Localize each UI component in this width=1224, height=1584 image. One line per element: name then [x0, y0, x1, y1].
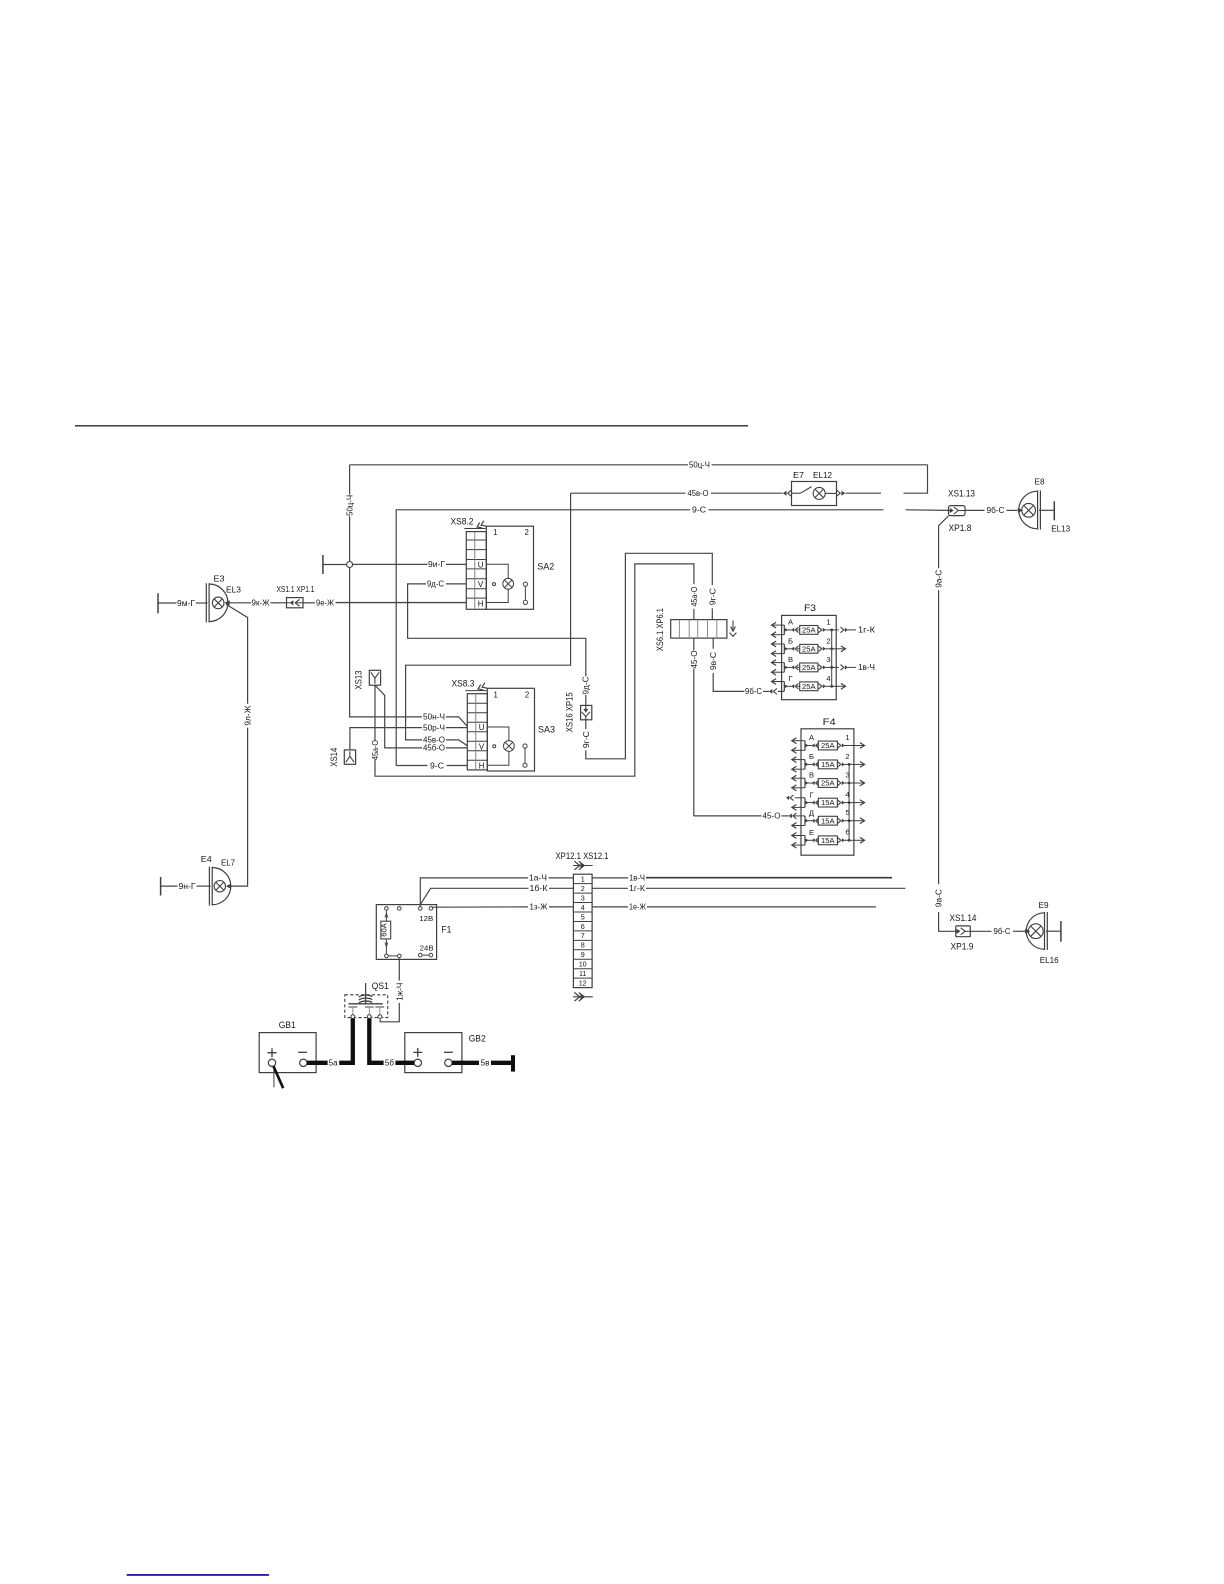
frame terminal bar: [511, 1055, 515, 1071]
wire 9е-Ж to SA2: [303, 602, 315, 604]
fuse block F3: [782, 615, 837, 699]
connector XS1.14 XP1.9: [956, 926, 971, 937]
svg-text:GB2: GB2: [469, 1034, 486, 1044]
XS8.2 header chevron: [464, 528, 485, 530]
svg-text:9к-Ж: 9к-Ж: [252, 598, 270, 608]
wire 9в-С below XS6.1 to F3: [712, 638, 714, 649]
fuse box F1: [376, 905, 436, 960]
svg-text:12В: 12В: [419, 914, 433, 923]
svg-text:25А: 25А: [802, 682, 816, 691]
svg-text:9: 9: [581, 950, 585, 959]
svg-text:6: 6: [581, 922, 585, 931]
svg-text:9г-С: 9г-С: [581, 731, 591, 748]
svg-text:1: 1: [581, 875, 585, 884]
wire 9м-Г: [158, 602, 177, 604]
fuse F4 row Д 15А: [804, 816, 806, 826]
svg-text:XS8.3: XS8.3: [452, 678, 475, 688]
svg-text:2: 2: [826, 636, 830, 645]
svg-text:1ж-Ч: 1ж-Ч: [394, 983, 404, 1001]
wire 50н-Ч from junction down: [350, 568, 422, 717]
svg-text:E8: E8: [1035, 477, 1045, 487]
svg-text:XS1.13: XS1.13: [948, 489, 975, 499]
rotary switch SA3: [487, 688, 534, 771]
wire 45-О below XS6.1: [693, 638, 695, 650]
svg-text:25А: 25А: [802, 626, 816, 635]
fuse F3 row А 25А: [783, 625, 785, 635]
svg-text:15А: 15А: [821, 836, 835, 845]
svg-text:U: U: [479, 723, 485, 732]
svg-text:9е-Ж: 9е-Ж: [316, 598, 334, 608]
XP12.1 top detach symbol: [573, 865, 593, 867]
svg-text:XS1.14: XS1.14: [950, 913, 977, 923]
svg-text:3: 3: [581, 893, 585, 902]
svg-text:15А: 15А: [821, 798, 835, 807]
svg-text:45-О: 45-О: [689, 650, 699, 669]
junction node circle: [347, 562, 353, 568]
svg-text:5б: 5б: [385, 1059, 395, 1068]
svg-text:45в-О: 45в-О: [423, 735, 446, 745]
svg-text:1: 1: [845, 733, 849, 742]
svg-text:50р-Ч: 50р-Ч: [423, 722, 445, 732]
svg-text:9д-С: 9д-С: [427, 579, 444, 589]
wire 1а-Ч from F1: [420, 878, 528, 908]
svg-text:5в: 5в: [481, 1059, 490, 1068]
svg-text:QS1: QS1: [372, 981, 389, 991]
horizontal rule: [75, 425, 748, 427]
connector XS1.1 XP1.1: [287, 598, 304, 608]
svg-text:25А: 25А: [821, 741, 835, 750]
svg-text:1: 1: [826, 618, 830, 627]
svg-text:1г-К: 1г-К: [858, 625, 875, 635]
svg-text:5: 5: [581, 912, 585, 921]
wire 1е-Ж right: [592, 906, 628, 908]
svg-text:GB1: GB1: [279, 1020, 296, 1030]
svg-text:12: 12: [579, 978, 587, 987]
F4 output bus: [848, 764, 850, 840]
connector XS6.1 XP6.1: [671, 620, 727, 639]
svg-text:1: 1: [494, 691, 498, 700]
footer blue rule: [127, 1574, 269, 1576]
svg-text:45а-О: 45а-О: [370, 740, 380, 760]
svg-text:45а-О: 45а-О: [689, 586, 699, 606]
svg-text:9б-С: 9б-С: [745, 686, 762, 696]
svg-text:XP1.9: XP1.9: [951, 941, 974, 951]
svg-text:2: 2: [525, 691, 529, 700]
wire 1г-К right: [592, 887, 628, 889]
svg-text:EL7: EL7: [221, 857, 235, 867]
svg-text:5а: 5а: [329, 1059, 339, 1068]
terminal bar at E9: [1060, 921, 1062, 942]
svg-text:XS8.2: XS8.2: [451, 516, 474, 526]
GB1 starter takeoff: [273, 1067, 275, 1088]
svg-text:9л-Ж: 9л-Ж: [243, 705, 253, 725]
svg-text:1г-К: 1г-К: [629, 883, 645, 893]
battery GB1: [259, 1033, 316, 1073]
svg-text:2: 2: [845, 752, 849, 761]
svg-text:XS14: XS14: [329, 748, 339, 767]
connector XS1.13 XP1.8: [949, 506, 966, 516]
svg-text:Е: Е: [809, 828, 814, 837]
svg-text:9а-С: 9а-С: [934, 889, 944, 907]
lamp E3 shell: [209, 584, 228, 622]
svg-text:2: 2: [581, 884, 585, 893]
lamp E9 shell: [1026, 913, 1044, 949]
svg-text:E7: E7: [793, 470, 804, 480]
svg-text:E9: E9: [1039, 900, 1049, 910]
fuse F4 row Б 15А: [804, 760, 806, 770]
lamp E8 shell: [1019, 491, 1038, 529]
connector strip XS8.3: [467, 694, 487, 770]
QS1 contact blades: [348, 1006, 357, 1008]
svg-text:9б-С: 9б-С: [994, 926, 1011, 936]
svg-text:11: 11: [579, 969, 586, 978]
svg-text:XP12.1 XS12.1: XP12.1 XS12.1: [556, 851, 609, 861]
svg-text:EL16: EL16: [1040, 955, 1059, 965]
wire 9к-Ж: [228, 602, 251, 604]
XS6.1 ground arrow symbol: [732, 620, 734, 629]
F3 output bus: [831, 630, 833, 686]
svg-text:25А: 25А: [802, 644, 816, 653]
fuse block F4: [801, 729, 854, 855]
svg-text:9-С: 9-С: [430, 760, 444, 770]
svg-text:Б: Б: [809, 752, 814, 761]
terminal bar left of E3: [157, 593, 159, 613]
svg-text:XS13: XS13: [354, 670, 364, 689]
QS1 terminals: [351, 1015, 355, 1019]
XS8.3 header chevron: [465, 690, 486, 692]
svg-text:9г-С: 9г-С: [707, 588, 717, 605]
svg-text:45-О: 45-О: [763, 811, 782, 821]
svg-text:50ц-Ч: 50ц-Ч: [344, 495, 354, 516]
wire 9н-Г: [161, 885, 178, 887]
svg-text:15А: 15А: [821, 816, 835, 825]
QS1 actuator: [365, 983, 367, 1003]
svg-text:1: 1: [493, 528, 497, 537]
svg-text:В: В: [809, 771, 814, 780]
fuse F4 row Г 15А: [804, 798, 806, 808]
connector XS13: [369, 670, 380, 685]
svg-text:E4: E4: [201, 854, 212, 864]
SA2 contacts: [523, 582, 527, 586]
XP12.1 bottom detach symbol: [573, 996, 593, 998]
terminal bar left of E4: [160, 877, 162, 896]
wire 45б-О from XS13 to SA3 V: [375, 685, 422, 748]
wire 1ж-Ч from F1 to QS1: [398, 958, 400, 981]
SA3 internal lamp: [487, 727, 509, 741]
svg-text:Г: Г: [788, 674, 792, 683]
wire net 50ц-Ч vertical from junction up: [349, 516, 351, 564]
svg-text:Б: Б: [788, 637, 793, 646]
terminal bar at E8: [1053, 501, 1055, 520]
connector XS16 XP15: [581, 705, 592, 719]
wire 1в-Ч right: [592, 877, 628, 879]
svg-text:4: 4: [826, 674, 830, 683]
svg-text:H: H: [479, 762, 485, 771]
svg-text:1б-К: 1б-К: [530, 883, 548, 893]
wire 9л-Ж down to EL7: [226, 604, 248, 704]
svg-text:15А: 15А: [821, 760, 835, 769]
svg-text:V: V: [479, 742, 485, 751]
svg-text:25А: 25А: [802, 663, 816, 672]
wire 1б-К from F1: [420, 888, 528, 904]
svg-text:9б-С: 9б-С: [987, 505, 1005, 515]
svg-text:E3: E3: [214, 574, 225, 584]
F1 terminals: [385, 907, 389, 911]
fuse F4 row А 25А: [804, 741, 806, 751]
battery GB2: [405, 1033, 462, 1073]
svg-text:H: H: [478, 600, 484, 609]
svg-text:9-С: 9-С: [692, 505, 706, 515]
svg-text:9н-Г: 9н-Г: [179, 881, 197, 891]
svg-text:EL12: EL12: [813, 470, 832, 480]
wire 45-О into F4 row Д: [694, 815, 762, 817]
svg-text:25А: 25А: [821, 779, 835, 788]
wire 9д-С from SA2 V: [446, 583, 466, 585]
terminal bar left of junction: [322, 555, 324, 574]
battery disconnect switch QS1: [345, 995, 388, 1018]
svg-text:U: U: [478, 560, 484, 569]
svg-text:7: 7: [581, 931, 585, 940]
svg-text:EL3: EL3: [226, 584, 241, 594]
svg-text:45в-О: 45в-О: [688, 488, 709, 498]
svg-text:SA3: SA3: [538, 725, 555, 735]
fuse F4 row В 25А: [804, 778, 806, 788]
svg-text:Г: Г: [809, 790, 813, 799]
svg-text:9а-С: 9а-С: [934, 570, 944, 588]
svg-text:9д-С: 9д-С: [581, 677, 591, 695]
svg-text:1з-Ж: 1з-Ж: [530, 902, 548, 912]
wire net 9-С top: [396, 510, 690, 766]
svg-text:XS1.1 XP1.1: XS1.1 XP1.1: [277, 584, 315, 594]
wire to junction: [323, 564, 347, 566]
fuse F3 row Г 25А: [783, 682, 785, 692]
cable 5а GB1 to QS1: [307, 1061, 328, 1065]
wire 9б-С to lamp E9: [970, 930, 991, 932]
svg-text:1е-Ж: 1е-Ж: [629, 902, 646, 912]
wire net 9а-С vertical: [939, 516, 949, 569]
fuse F4 row Е 15А: [804, 836, 806, 846]
wire 9г-С from XS16 to XS6.1: [585, 720, 587, 730]
rotary switch SA2: [486, 526, 533, 609]
svg-text:SA2: SA2: [537, 562, 554, 572]
svg-text:V: V: [478, 580, 484, 589]
lamp E4 shell: [212, 868, 231, 905]
svg-text:EL13: EL13: [1051, 523, 1070, 533]
wire net 50ц-Ч horizontal top: [350, 464, 688, 466]
svg-text:XP1.8: XP1.8: [949, 523, 972, 533]
svg-text:9и-Г: 9и-Г: [428, 559, 446, 569]
svg-text:1в-Ч: 1в-Ч: [629, 873, 645, 883]
cable 5б QS1 to GB2: [369, 1019, 383, 1063]
wire 9-С into SA3 H: [396, 765, 427, 767]
svg-text:1а-Ч: 1а-Ч: [529, 873, 547, 883]
SA3 contacts: [523, 744, 527, 748]
wire 9и-Г to SA2 U: [353, 563, 428, 565]
svg-text:10: 10: [579, 960, 587, 969]
svg-text:F1: F1: [441, 924, 451, 934]
fuse 60А inside F1: [381, 921, 391, 939]
fuse F3 row Б 25А: [783, 644, 785, 654]
svg-text:В: В: [788, 655, 793, 664]
svg-text:9м-Г: 9м-Г: [177, 598, 196, 608]
svg-text:24В: 24В: [420, 943, 434, 952]
svg-text:XS16 XP15: XS16 XP15: [564, 692, 574, 732]
connector XS14: [344, 750, 355, 764]
wire 50р-Ч from XS14 to SA3 U: [350, 728, 422, 750]
wire 1з-Ж from F1: [432, 906, 529, 908]
svg-text:F4: F4: [823, 717, 836, 727]
fuse F3 row В 25А: [783, 663, 785, 673]
svg-text:4: 4: [581, 903, 585, 912]
connector XP12.1 XS12.1: [573, 874, 592, 987]
cable 5в GB2 to frame: [452, 1061, 479, 1065]
svg-text:Д: Д: [809, 808, 814, 817]
svg-text:9в-С: 9в-С: [708, 652, 718, 670]
svg-text:50ц-Ч: 50ц-Ч: [689, 460, 710, 470]
svg-text:60А: 60А: [379, 923, 388, 937]
wire 45а-О from XS13 to XS6.1: [374, 685, 376, 740]
svg-text:F3: F3: [804, 603, 816, 613]
svg-text:1в-Ч: 1в-Ч: [858, 662, 875, 672]
SA2 internal lamp: [486, 564, 508, 578]
wire 9б-С to lamp E8: [965, 509, 985, 511]
lamp unit E7 EL12: [783, 491, 787, 496]
svg-text:3: 3: [826, 655, 830, 664]
connector strip XS8.2: [466, 532, 486, 610]
svg-text:50н-Ч: 50н-Ч: [423, 712, 445, 722]
svg-text:XS6.1 XP6.1: XS6.1 XP6.1: [655, 608, 665, 651]
wire 45в-О from E7 row down to SA3: [406, 493, 571, 740]
svg-text:2: 2: [525, 528, 529, 537]
svg-text:8: 8: [581, 941, 585, 950]
wire net 45в-О to lamp E7: [571, 492, 686, 494]
